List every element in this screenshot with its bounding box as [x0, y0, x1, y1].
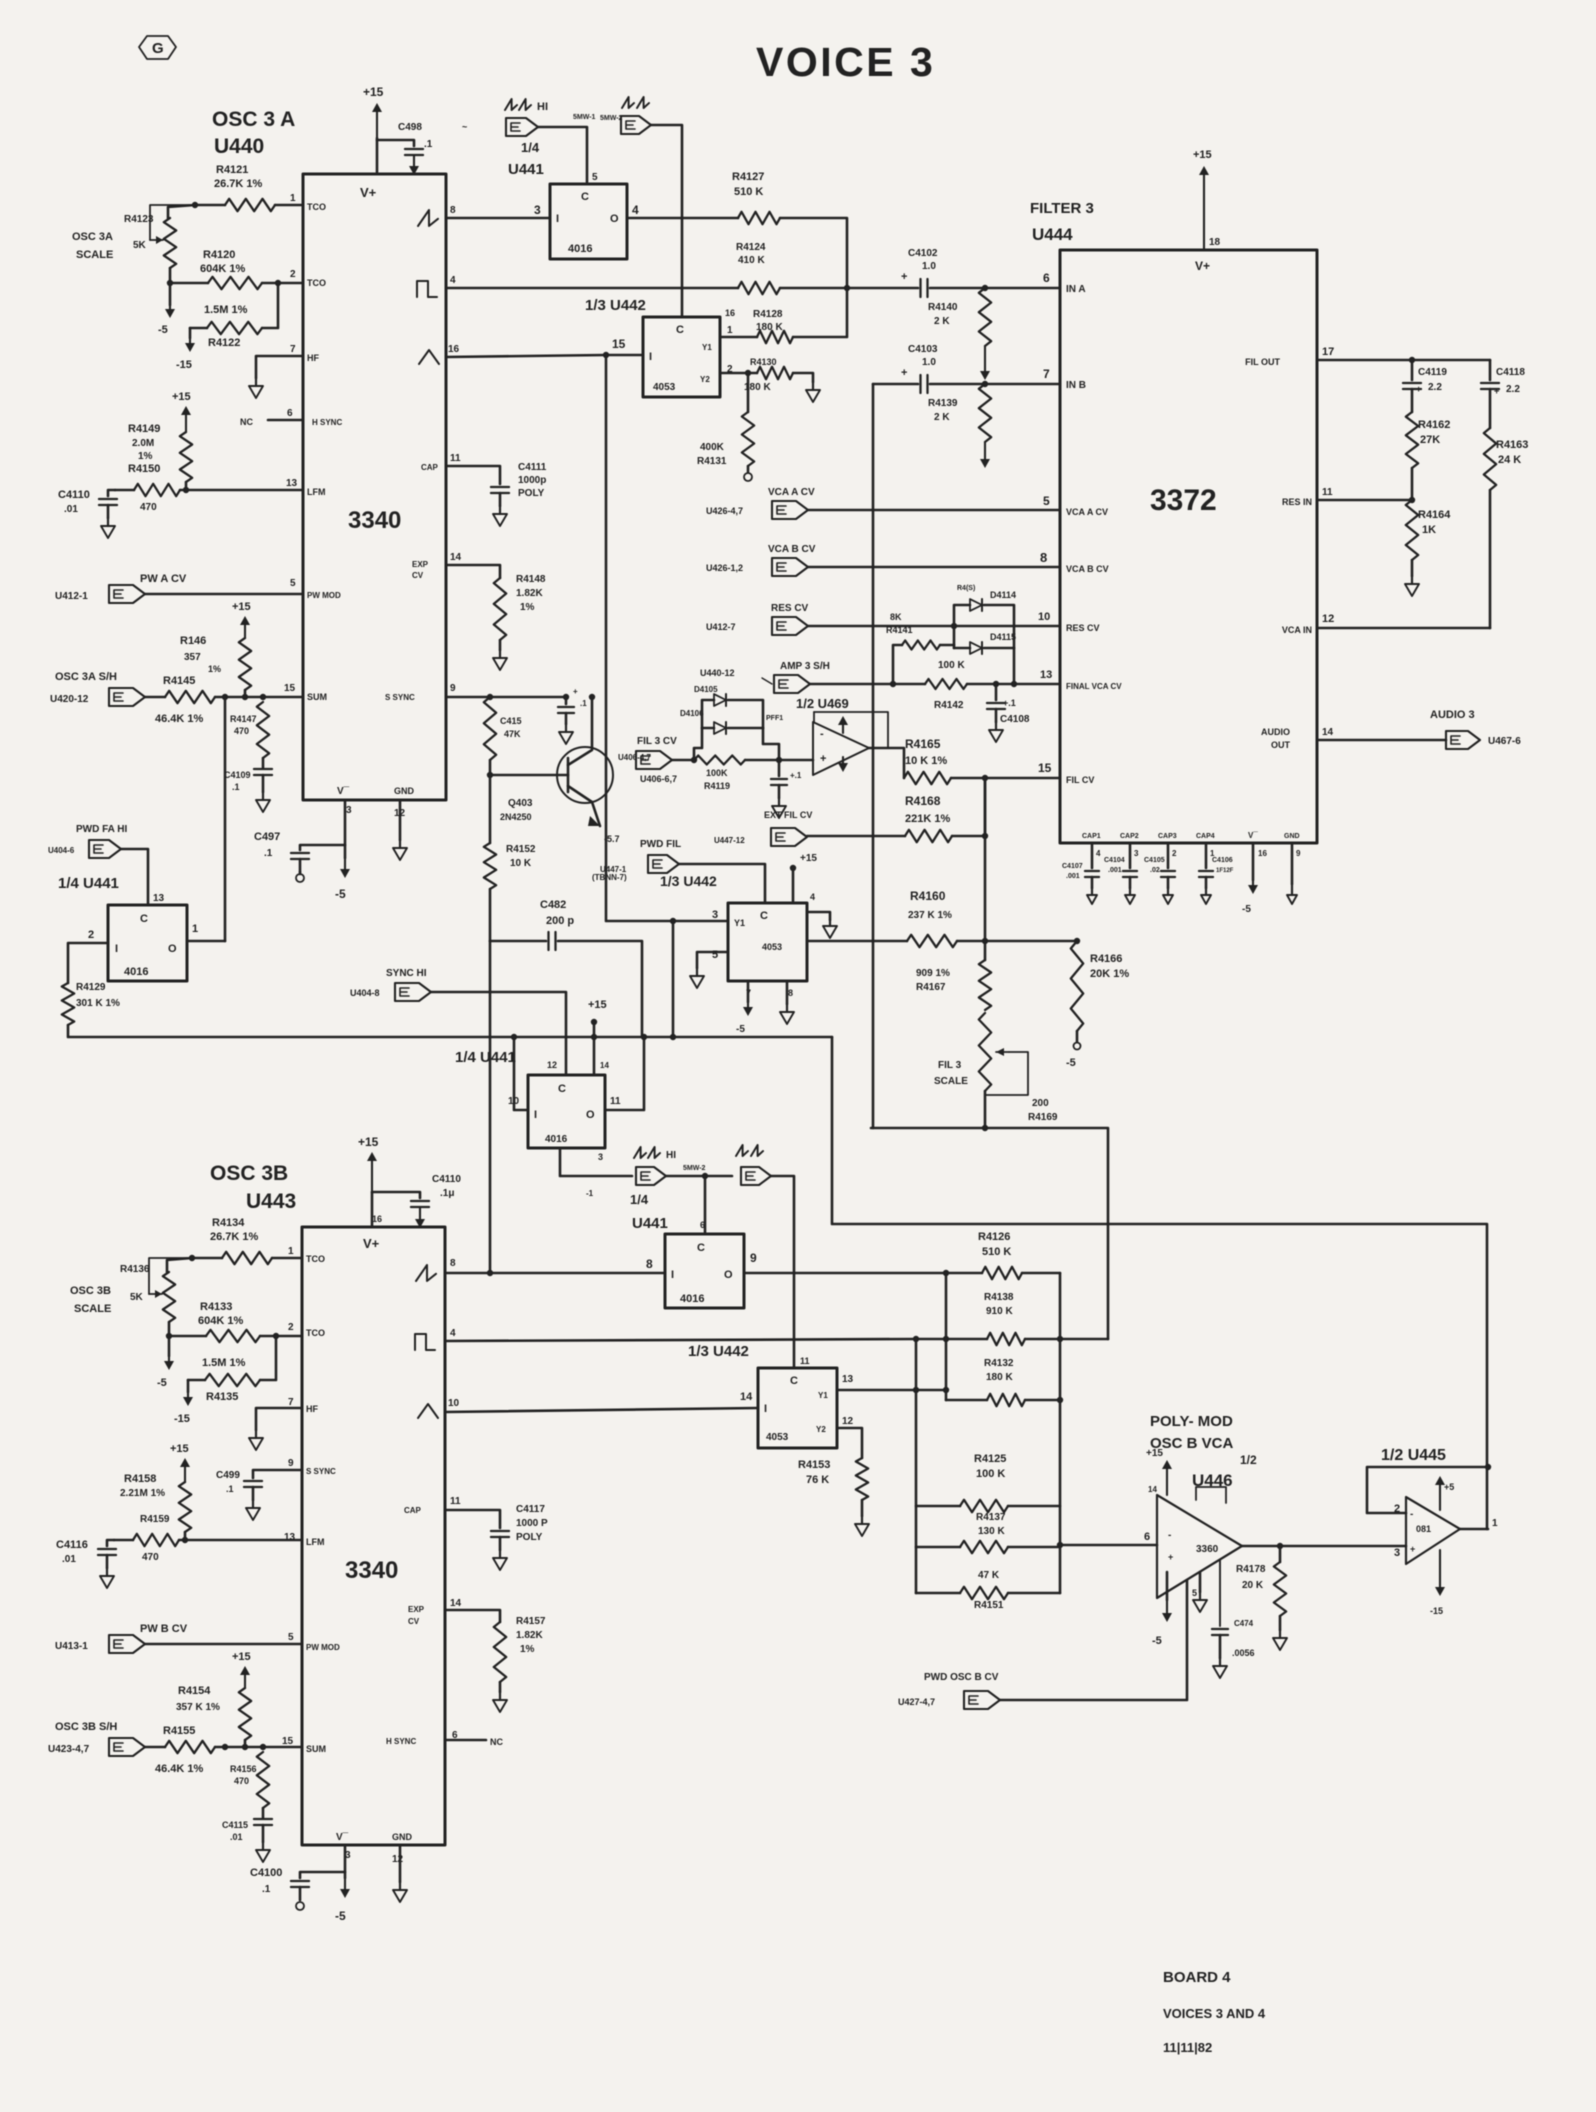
capacitor C4117 1000p POLY — [445, 1504, 548, 1550]
svg-text:R4142: R4142 — [934, 700, 964, 711]
power +15 (U442b) — [790, 853, 818, 903]
svg-text:76 K: 76 K — [806, 1474, 829, 1486]
svg-text:1/4 U441: 1/4 U441 — [58, 875, 119, 892]
waveform glyph triangle 3B — [418, 1404, 438, 1418]
svg-text:LFM: LFM — [307, 487, 326, 497]
svg-text:R4121: R4121 — [216, 164, 248, 176]
svg-text:3: 3 — [346, 805, 352, 816]
wire GND pin12 down — [399, 800, 402, 840]
wire pin7 to ground 3B — [256, 1408, 302, 1430]
svg-text:O: O — [610, 213, 619, 225]
svg-text:U467-6: U467-6 — [1488, 736, 1521, 747]
wire FIL CV to pin15 — [985, 777, 1060, 780]
svg-text:HI: HI — [666, 1150, 676, 1161]
ground (C4100) — [296, 1902, 304, 1910]
svg-text:8K: 8K — [890, 612, 902, 622]
svg-text:-1: -1 — [586, 1189, 594, 1198]
resistor R4159 470 — [114, 1514, 302, 1563]
wire U442b pin3 — [606, 355, 728, 924]
svg-text:604K 1%: 604K 1% — [200, 263, 245, 275]
ground (C4117) — [493, 1550, 507, 1570]
svg-text:-5: -5 — [1242, 904, 1251, 915]
wire SYNC pin9 right — [446, 694, 569, 700]
svg-text:V¯: V¯ — [336, 1831, 349, 1843]
svg-text:14: 14 — [1148, 1485, 1157, 1494]
resistor R4157 1.82K 1% — [445, 1610, 546, 1692]
resistor R4137 130K — [916, 1512, 1060, 1553]
waveform label saw B HI — [634, 1147, 676, 1161]
svg-text:VOICE 3: VOICE 3 — [756, 39, 935, 85]
ground (R4178) — [1273, 1630, 1287, 1650]
ground (C4111) — [493, 506, 507, 526]
resistor R4152 10K — [484, 772, 536, 889]
svg-text:SCALE: SCALE — [934, 1076, 968, 1087]
svg-text:V+: V+ — [360, 185, 377, 200]
svg-text:PW B CV: PW B CV — [140, 1623, 188, 1635]
wire SUM bus 3B — [222, 1744, 302, 1750]
power -5 (U442b pin7) — [736, 1002, 753, 1035]
svg-text:-: - — [1410, 1509, 1413, 1520]
power +15 (R4154) — [232, 1651, 251, 1688]
svg-text:~: ~ — [462, 122, 467, 132]
wire diode cluster to FIL3CV node — [691, 728, 702, 763]
rail right network — [1057, 1273, 1063, 1593]
IC U441b 4016 box — [88, 905, 198, 981]
bus pulse B wire — [445, 1336, 919, 1342]
ground (C4115) — [256, 1842, 270, 1862]
svg-text:POLY: POLY — [518, 488, 545, 499]
ground (pin7 3B) — [249, 1430, 263, 1450]
flag PWD FIL from U447-12 — [640, 828, 807, 850]
svg-text:O: O — [724, 1269, 733, 1281]
svg-text:R4(S): R4(S) — [957, 585, 975, 592]
svg-text:POLY- MOD: POLY- MOD — [1150, 1413, 1233, 1430]
svg-text:R4139: R4139 — [928, 398, 958, 409]
svg-text:130 K: 130 K — [978, 1526, 1005, 1537]
svg-text:1%: 1% — [138, 451, 153, 462]
wire pot bottom to -5 — [169, 283, 172, 305]
svg-text:NC: NC — [490, 1737, 503, 1747]
svg-text:2N4250: 2N4250 — [500, 812, 532, 822]
svg-text:C: C — [697, 1242, 705, 1254]
svg-text:10: 10 — [1038, 611, 1050, 623]
svg-text:U412-1: U412-1 — [55, 591, 88, 602]
svg-text:+: + — [573, 687, 578, 696]
svg-text:4053: 4053 — [653, 382, 676, 393]
svg-text:C4118: C4118 — [1496, 367, 1525, 378]
svg-text:C: C — [140, 913, 148, 925]
svg-text:+15: +15 — [1146, 1448, 1163, 1459]
svg-text:-5: -5 — [157, 1377, 167, 1389]
IC U440 3340 box — [284, 174, 462, 819]
svg-text:C4108: C4108 — [1000, 714, 1030, 725]
svg-text:4016: 4016 — [680, 1293, 704, 1305]
svg-text:+: + — [1168, 1552, 1173, 1562]
wire pin7 to ground — [256, 356, 303, 378]
resistor R4156 470 — [230, 1752, 269, 1818]
wire U441b pin1 up to SUM node — [187, 940, 225, 943]
ground (C4109) — [256, 792, 270, 812]
wire SUM node to 4016 pin1 — [224, 697, 227, 941]
svg-text:1000 P: 1000 P — [516, 1518, 548, 1529]
svg-text:+: + — [820, 753, 826, 765]
svg-text:+: + — [1494, 386, 1499, 396]
op-amp U446 3360 — [1144, 1448, 1242, 1598]
svg-text:EXT FIL CV: EXT FIL CV — [764, 810, 812, 820]
svg-text:5: 5 — [1043, 494, 1050, 508]
svg-text:R4122: R4122 — [208, 337, 240, 349]
svg-text:R4156: R4156 — [230, 1764, 257, 1774]
svg-text:1.0: 1.0 — [922, 357, 936, 368]
svg-text:1: 1 — [192, 923, 198, 935]
svg-text:410 K: 410 K — [738, 255, 765, 266]
svg-text:+15: +15 — [172, 391, 191, 403]
wire U442c pin13 out — [837, 1387, 949, 1393]
resistor R4128 180K — [720, 288, 847, 343]
svg-text:GND: GND — [394, 786, 415, 796]
op-amp label POLY-MOD OSC B VCA 1/2 U446 — [1150, 1413, 1257, 1490]
svg-text:GND: GND — [1284, 833, 1300, 840]
ground (CAP1) — [1087, 888, 1097, 904]
svg-text:1/2 U445: 1/2 U445 — [1381, 1447, 1446, 1464]
flag OSC 3A S/H from U420-12 — [50, 671, 145, 706]
capacitor C4110b .1u — [372, 1174, 461, 1228]
wire R4140 to In B (arrow) — [980, 346, 990, 380]
resistor R4124 410K — [446, 242, 847, 294]
svg-text:1/3 U442: 1/3 U442 — [585, 297, 646, 314]
wire U441c pin10 stub — [511, 1034, 528, 1110]
svg-text:OUT: OUT — [1271, 740, 1291, 750]
flag SAW A in — [462, 118, 538, 136]
rail left R4126 — [943, 1273, 949, 1400]
transistor Q403 2N4250 — [490, 694, 651, 882]
svg-text:8: 8 — [1040, 550, 1047, 565]
wire pot bottom to -5 (3B) — [168, 1336, 171, 1356]
svg-text:2: 2 — [290, 269, 296, 280]
svg-text:I: I — [534, 1109, 537, 1121]
svg-text:Y1: Y1 — [702, 343, 712, 352]
capacitor C4106 .1 (CAP4) — [1199, 843, 1234, 888]
ground (C4116) — [100, 1568, 114, 1588]
svg-text:+15: +15 — [170, 1443, 189, 1455]
svg-text:R146: R146 — [180, 635, 206, 647]
wire U442b pin3 branch down — [670, 921, 676, 1040]
svg-text:7: 7 — [288, 1397, 294, 1408]
svg-text:+: + — [901, 271, 907, 283]
waveform label saw A — [622, 97, 649, 108]
resistor R4129 301K 1% — [62, 982, 120, 1025]
power -15 (R4135) — [174, 1380, 193, 1425]
ground (CAP4) — [1201, 888, 1211, 904]
svg-text:5: 5 — [592, 172, 598, 183]
svg-text:15: 15 — [612, 337, 626, 351]
power -5 (U446) — [1152, 1600, 1172, 1647]
svg-text:R4133: R4133 — [200, 1301, 232, 1313]
svg-text:VCA B CV: VCA B CV — [1066, 564, 1109, 574]
svg-text:1/4: 1/4 — [630, 1192, 649, 1207]
svg-text:V¯: V¯ — [1248, 831, 1258, 840]
wire flag to U441b pin13 — [121, 849, 165, 905]
capacitor C499 .1 — [216, 1470, 302, 1500]
svg-text:SUM: SUM — [306, 1744, 326, 1754]
svg-text:PFF1: PFF1 — [766, 715, 783, 722]
svg-text:+15: +15 — [588, 999, 607, 1011]
wire SUM bus — [222, 694, 303, 700]
svg-text:RES CV: RES CV — [1066, 623, 1100, 633]
svg-text:R4151: R4151 — [974, 1600, 1004, 1611]
waveform glyph triangle pin16 — [419, 350, 439, 364]
svg-text:R4140: R4140 — [928, 302, 958, 313]
svg-text:U423-4,7: U423-4,7 — [48, 1744, 90, 1755]
IC U441c 4016 box — [508, 1075, 621, 1162]
power -5 (OSC3B V-) — [335, 1878, 350, 1923]
svg-text:U404-6: U404-6 — [48, 846, 75, 855]
svg-text:3340: 3340 — [348, 507, 401, 534]
node +15 bus crossing — [591, 1034, 597, 1040]
svg-text:HF: HF — [306, 1404, 318, 1414]
svg-text:C4103: C4103 — [908, 344, 938, 355]
flag VCA B CV from U426-1,2 — [706, 544, 816, 576]
svg-text:4: 4 — [810, 892, 815, 902]
svg-text:C4119: C4119 — [1418, 367, 1447, 378]
svg-text:11: 11 — [610, 1096, 621, 1107]
svg-text:46.4K 1%: 46.4K 1% — [155, 1763, 204, 1775]
svg-text:+: + — [901, 367, 907, 379]
svg-text:C4109: C4109 — [224, 770, 251, 780]
diode D4114 — [954, 585, 1016, 648]
svg-text:14: 14 — [450, 552, 462, 563]
svg-text:R4163: R4163 — [1496, 439, 1528, 451]
resistor R4168 221K 1% — [807, 778, 985, 842]
svg-text:R4124: R4124 — [736, 242, 766, 253]
ground (R4139 arrow) — [980, 442, 990, 468]
svg-text:1/3 U442: 1/3 U442 — [688, 1343, 749, 1360]
svg-text:C415: C415 — [500, 716, 522, 726]
svg-text:2: 2 — [88, 929, 94, 941]
note VOICES 3 AND 4 — [1163, 2006, 1266, 2021]
wire U441d pin6 up — [702, 1173, 708, 1234]
ground (U446 pin) — [1193, 1572, 1207, 1612]
svg-text:5MW-2: 5MW-2 — [600, 115, 623, 122]
svg-text:100 K: 100 K — [938, 660, 965, 671]
node In A feed — [844, 285, 850, 291]
svg-text:VCA B CV: VCA B CV — [768, 544, 816, 555]
svg-text:D4114: D4114 — [990, 590, 1016, 600]
svg-text:6: 6 — [287, 408, 293, 419]
svg-text:CAP4: CAP4 — [1196, 833, 1215, 840]
svg-text:R4178: R4178 — [1236, 1564, 1266, 1575]
svg-text:1F12F: 1F12F — [1216, 868, 1234, 874]
wire trimmer to feedback bus — [982, 1091, 988, 1131]
flag FIL 3 CV from U406-6,7 — [636, 736, 677, 784]
node FIL CV — [982, 775, 988, 781]
wire U445 feedback — [1367, 1464, 1491, 1513]
svg-text:8: 8 — [788, 988, 793, 998]
svg-text:.1: .1 — [264, 848, 273, 859]
resistor R4142 100K — [925, 660, 1060, 711]
ground (OSC3B GND) — [393, 1882, 407, 1902]
svg-text:AUDIO 3: AUDIO 3 — [1430, 709, 1475, 721]
svg-text:180 K: 180 K — [986, 1372, 1013, 1383]
waveform label saw B — [736, 1145, 763, 1156]
svg-text:G: G — [152, 40, 164, 57]
svg-text:2 K: 2 K — [934, 412, 950, 423]
svg-text:C: C — [676, 324, 684, 336]
svg-text:+: + — [1410, 1544, 1415, 1554]
svg-text:C4102: C4102 — [908, 248, 938, 259]
svg-text:U440: U440 — [214, 135, 264, 158]
svg-text:1: 1 — [1492, 1518, 1498, 1529]
svg-text:470: 470 — [234, 726, 249, 736]
svg-text:470: 470 — [142, 1552, 159, 1563]
svg-text:6: 6 — [1043, 271, 1050, 285]
capacitor C4110 .01 — [58, 489, 117, 518]
svg-text:CAP: CAP — [421, 463, 439, 472]
IC U442a 4053 label 1/3 U442 — [585, 297, 646, 314]
ground (C4174) — [1213, 1658, 1227, 1678]
svg-text:13: 13 — [153, 893, 165, 904]
wire pin6 NC stub — [240, 417, 303, 427]
resistor R4155 46.4K 1% — [145, 1725, 225, 1775]
svg-text:FILTER 3: FILTER 3 — [1030, 200, 1094, 217]
capacitor C4108 .1 — [987, 684, 1030, 725]
ground (pin7) — [249, 378, 263, 398]
svg-text:13: 13 — [1040, 669, 1052, 681]
wire VCA A CV — [808, 509, 1060, 512]
svg-text:EXP: EXP — [412, 560, 429, 569]
ground (C497) — [296, 872, 304, 882]
svg-text:R4148: R4148 — [516, 574, 546, 585]
svg-text:O: O — [586, 1109, 595, 1121]
resistor R4130 180K — [720, 357, 813, 393]
svg-text:-5: -5 — [1152, 1635, 1162, 1647]
svg-text:11: 11 — [800, 1356, 810, 1366]
svg-text:3360: 3360 — [1196, 1544, 1219, 1555]
svg-text:2: 2 — [1172, 849, 1177, 858]
svg-text:SUM: SUM — [307, 692, 327, 702]
svg-text:16: 16 — [1258, 849, 1267, 858]
svg-text:3372: 3372 — [1150, 484, 1217, 517]
svg-text:R4141: R4141 — [886, 625, 913, 635]
resistor R4164 1K — [1406, 500, 1451, 576]
svg-text:1%: 1% — [208, 664, 221, 674]
svg-text:13: 13 — [284, 1532, 296, 1543]
IC U442b 4053 label 1/3 U442 — [660, 873, 717, 889]
svg-text:4016: 4016 — [545, 1134, 568, 1145]
resistor R4135 1.5M 1% — [188, 1333, 279, 1403]
wire tri B to U442c pin14 — [445, 1408, 758, 1412]
wire V+ to box — [376, 138, 379, 174]
IC U443 3340 box — [282, 1227, 462, 1865]
svg-text:12: 12 — [1322, 613, 1334, 625]
svg-text:+.1: +.1 — [790, 771, 802, 780]
svg-text:1/2 U469: 1/2 U469 — [796, 696, 849, 711]
ground (U442b pin8) — [780, 1004, 794, 1024]
svg-text:PW MOD: PW MOD — [307, 591, 341, 600]
svg-text:-5: -5 — [158, 324, 168, 336]
svg-text:FIL OUT: FIL OUT — [1245, 357, 1280, 367]
capacitor C482 200p — [490, 889, 642, 1036]
svg-text:510 K: 510 K — [734, 186, 763, 198]
svg-text:U444: U444 — [1032, 225, 1073, 244]
svg-text:+15: +15 — [232, 1651, 251, 1663]
svg-text:U412-7: U412-7 — [706, 622, 736, 632]
flag PW B CV from U413-1 — [55, 1623, 188, 1653]
IC U442c 4053 box — [740, 1356, 854, 1448]
svg-text:7: 7 — [290, 344, 296, 355]
svg-text:.1: .1 — [232, 782, 240, 792]
svg-text:CAP2: CAP2 — [1120, 833, 1139, 840]
wire U446 output — [1242, 1543, 1406, 1549]
svg-text:17: 17 — [1322, 346, 1334, 358]
wire SYNC HI to U441c pin12 — [431, 992, 566, 1075]
svg-text:Y1: Y1 — [818, 1391, 828, 1400]
svg-text:400K: 400K — [700, 442, 725, 453]
svg-text:1/2: 1/2 — [1240, 1453, 1257, 1467]
svg-text:IN B: IN B — [1066, 380, 1086, 391]
waveform glyph sawtooth 3B — [416, 1265, 436, 1281]
capacitor C4119 2.2 — [1403, 360, 1447, 412]
svg-text:16: 16 — [725, 308, 735, 318]
svg-text:R4126: R4126 — [978, 1231, 1010, 1243]
svg-text:U426-4,7: U426-4,7 — [706, 506, 743, 516]
waveform glyph pulse 3B — [415, 1334, 435, 1350]
wire FIL OUT — [1317, 357, 1490, 363]
svg-text:20K 1%: 20K 1% — [1090, 968, 1129, 980]
svg-text:C4100: C4100 — [250, 1867, 282, 1879]
capacitor C497 .1 — [254, 831, 345, 872]
svg-text:VOICES 3 AND 4: VOICES 3 AND 4 — [1163, 2006, 1266, 2021]
capacitor C4103 1.0 — [873, 344, 985, 393]
svg-text:3: 3 — [712, 909, 718, 921]
svg-text:5K: 5K — [133, 240, 147, 251]
resistor R4150 470 — [115, 463, 303, 513]
resistor R4138 910K — [916, 1292, 1108, 1345]
svg-text:+15: +15 — [363, 85, 384, 99]
svg-text:I: I — [649, 351, 652, 363]
svg-text:2: 2 — [288, 1322, 294, 1333]
IC U442a 4053 box — [612, 308, 735, 397]
svg-text:C: C — [790, 1375, 798, 1387]
waveform label saw A HI — [505, 99, 548, 113]
svg-text:C498: C498 — [398, 122, 422, 133]
svg-text:D4115: D4115 — [990, 632, 1016, 642]
diode D4105 — [694, 685, 763, 728]
resistor R4134 26.7K 1% — [192, 1217, 302, 1264]
svg-text:R4127: R4127 — [732, 171, 764, 183]
svg-text:4: 4 — [450, 275, 456, 286]
resistor R4132 180K — [946, 1358, 1060, 1406]
svg-text:-: - — [820, 728, 824, 740]
power -5 (pot 3B) — [157, 1356, 174, 1389]
svg-text:-5: -5 — [335, 1909, 346, 1923]
svg-text:+5: +5 — [1444, 1482, 1454, 1492]
bus PWD FA vertical — [832, 1037, 1487, 1529]
wire diode cluster right leg — [763, 728, 779, 760]
svg-text:R4136: R4136 — [120, 1264, 150, 1275]
svg-text:SYNC HI: SYNC HI — [386, 968, 427, 979]
svg-text:U406-6,7: U406-6,7 — [640, 774, 677, 784]
wire flag2 to U442a C — [600, 115, 682, 317]
svg-text:10 K: 10 K — [510, 858, 532, 869]
resistor R4178 20K — [1236, 1546, 1286, 1630]
IC U444 label FILTER 3 U444 — [1030, 200, 1094, 244]
resistor R4167 909 1% — [916, 960, 991, 1010]
svg-text:12: 12 — [392, 1854, 404, 1865]
svg-text:-5: -5 — [736, 1024, 745, 1035]
svg-text:.02: .02 — [1150, 867, 1160, 874]
flag SAW B out — [741, 1167, 771, 1185]
